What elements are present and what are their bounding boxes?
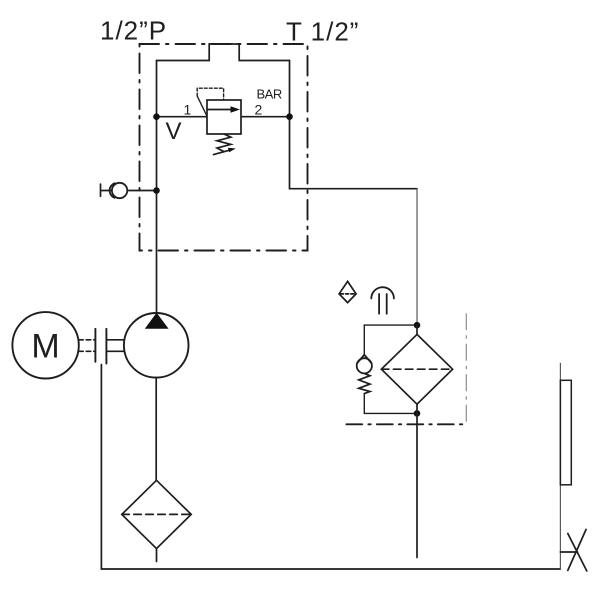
relief valve pilot line (dashed) (197, 88, 223, 100)
wire: tank bottom run (101, 568, 560, 570)
gauge port: tick (101, 184, 112, 196)
svg-text:1: 1 (184, 102, 192, 118)
electric motor M (12, 312, 78, 378)
check valve ball (357, 358, 372, 373)
filter enclosure right edge (dash-dot, light) (465, 314, 467, 425)
node: gauge junction (153, 187, 160, 194)
filler breather cap (diamond) (339, 281, 356, 302)
gauge port: coupling arc (110, 183, 115, 198)
wire: port 1 pressure line (157, 116, 208, 118)
svg-text:1/2”P: 1/2”P (100, 16, 167, 46)
coupling: pump shaft (106, 340, 124, 352)
relief valve flow arrow (207, 109, 231, 111)
filter enclosure bottom edge (dash-dot) (346, 423, 466, 425)
pump outlet triangle (145, 313, 169, 329)
strainer element (dashed) (122, 513, 191, 515)
wire: bypass bottom branch (364, 412, 417, 414)
suction strainer F1 (122, 480, 191, 548)
relief valve pilot diagonal (197, 96, 207, 116)
relief valve adjustment arrow (214, 150, 230, 154)
wire: bypass drop upper (363, 325, 365, 355)
air breather arc (371, 287, 394, 298)
svg-text:V: V (166, 118, 182, 145)
wire: T line down inside manifold (290, 61, 418, 189)
wire: manifold T port to return filter (light) (416, 189, 418, 326)
wire: gauge to pressure line (127, 190, 156, 192)
node: port 2 junction (286, 113, 293, 120)
node: port 1 junction (153, 113, 160, 120)
check valve seat (357, 355, 371, 363)
svg-text:2: 2 (255, 102, 263, 118)
filler cap element (dashed) (341, 293, 355, 295)
wire: drain stub (560, 551, 577, 553)
svg-text:BAR: BAR (257, 87, 282, 102)
gauge port: circle (112, 183, 127, 198)
breather pipes (379, 294, 387, 314)
svg-text:M: M (31, 328, 59, 366)
wire: strainer tail (156, 549, 158, 562)
wire: manifold top run with tab (157, 44, 290, 61)
manifold enclosure (dash-dot) (140, 44, 308, 251)
pump P1 (124, 313, 189, 378)
wire: port 2 line (241, 116, 290, 118)
wire: tank right level line (light) (559, 363, 561, 569)
node: filter outlet junction (414, 410, 421, 417)
wire: bypass top branch (364, 324, 417, 326)
wire: bypass drop lower (363, 394, 365, 414)
filter element (dashed) (381, 368, 452, 370)
wire: pump suction (155, 378, 157, 481)
relief valve spring (217, 134, 231, 151)
check valve spring (359, 373, 370, 393)
wire: filter bottom stub (416, 404, 418, 413)
drain valve (closed) (568, 529, 587, 571)
level gauge L1 (560, 380, 571, 485)
wire: filter top stub (416, 325, 418, 334)
wire: return line into tank (416, 413, 418, 557)
return filter F2 (381, 334, 452, 404)
coupling bars (95, 329, 106, 364)
wire: pump pressure line up into manifold (156, 61, 158, 314)
svg-text:T 1/2”: T 1/2” (286, 17, 359, 47)
coupling: motor shaft (dashed) (79, 340, 96, 352)
node: filter inlet junction (414, 322, 421, 329)
relief valve V1 body (207, 100, 241, 134)
wire: motor drain to tank (100, 365, 102, 570)
